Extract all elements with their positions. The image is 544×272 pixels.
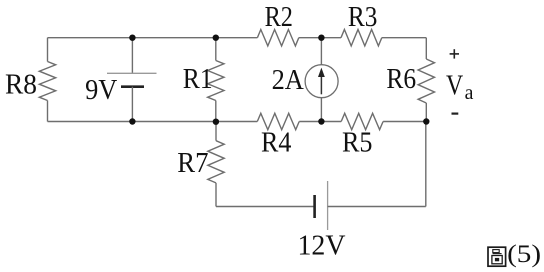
svg-text:R4: R4 [261, 128, 291, 159]
svg-text:9V: 9V [85, 75, 117, 106]
svg-text:R5: R5 [342, 128, 373, 159]
svg-text:R1: R1 [183, 64, 213, 95]
svg-text:a: a [465, 82, 474, 104]
svg-text:12V: 12V [298, 230, 346, 262]
svg-text:V: V [446, 71, 463, 102]
svg-text:R2: R2 [265, 2, 293, 33]
svg-text:(5): (5) [507, 241, 541, 268]
svg-text:R3: R3 [348, 2, 378, 33]
svg-text:R7: R7 [177, 148, 208, 179]
svg-text:2A: 2A [272, 65, 305, 96]
svg-text:R6: R6 [386, 64, 416, 95]
svg-text:R8: R8 [5, 69, 37, 100]
